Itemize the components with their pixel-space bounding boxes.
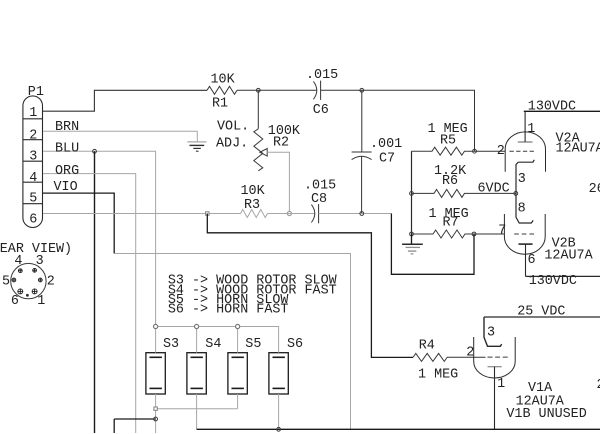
connector P1 outline	[23, 96, 43, 228]
svg-text:V1B UNUSED: V1B UNUSED	[506, 407, 586, 422]
svg-text:C8: C8	[311, 192, 327, 207]
capacitor C8	[311, 205, 314, 223]
svg-text:S5: S5	[245, 337, 261, 352]
svg-text:S3: S3	[163, 337, 179, 352]
wire S3 bottom lead	[155, 394, 157, 433]
wire junction to R2	[257, 90, 259, 129]
node junction R7 left	[410, 232, 414, 236]
svg-text:2: 2	[47, 275, 55, 290]
wire BLU pin3	[43, 151, 156, 326]
wire S6 bottom lead	[278, 394, 280, 429]
svg-text:26: 26	[589, 182, 600, 197]
svg-text:R5: R5	[440, 133, 456, 148]
wire BLU bus down	[94, 151, 96, 433]
node square S3/S5 link	[154, 407, 157, 410]
node S3/VIO spur	[154, 417, 158, 421]
V2A plate	[518, 141, 533, 143]
svg-text:S6: S6	[287, 337, 303, 352]
J pin 6	[18, 289, 23, 294]
svg-text:3: 3	[518, 172, 526, 187]
switch S6	[269, 353, 288, 394]
svg-text:6: 6	[528, 253, 536, 268]
wire S5 bottom link	[156, 394, 238, 409]
svg-text:1 MEG: 1 MEG	[418, 367, 458, 382]
node junction 6VDC	[514, 192, 518, 196]
svg-text:7: 7	[498, 224, 506, 239]
svg-text:BLU: BLU	[55, 142, 79, 157]
svg-text:2: 2	[29, 129, 37, 144]
svg-text:4: 4	[29, 171, 37, 186]
V1A grid dashes	[488, 356, 509, 358]
wire switch top bus	[156, 327, 279, 353]
wire V2A grid	[475, 150, 506, 152]
wire VIO pin5	[43, 193, 114, 253]
wire bottom rail	[197, 428, 600, 430]
svg-text:8: 8	[518, 202, 526, 217]
svg-text:R4: R4	[419, 338, 435, 353]
capacitor C7	[352, 151, 372, 153]
svg-text:130VDC: 130VDC	[529, 274, 577, 289]
resistor R6	[412, 189, 516, 197]
J pin 2	[38, 278, 42, 282]
wire BRN pin2	[43, 131, 197, 142]
V1A cathode and 25VDC wire	[484, 317, 502, 346]
J pin 5	[12, 278, 16, 282]
wire C8 to corner	[319, 213, 392, 215]
svg-text:C7: C7	[379, 152, 395, 167]
J key dot	[26, 294, 29, 297]
wire C6 to grid corner	[321, 90, 475, 151]
svg-text:12AU7A: 12AU7A	[556, 141, 600, 156]
wire R1 to C6	[237, 89, 317, 91]
wire 130VDC V2A	[524, 110, 600, 112]
svg-text:.001: .001	[370, 137, 402, 152]
svg-text:2: 2	[497, 144, 505, 159]
svg-text:12AU7A: 12AU7A	[544, 249, 593, 264]
svg-text:R1: R1	[212, 97, 228, 112]
svg-text:10K: 10K	[211, 73, 236, 88]
node junction R6 left	[410, 192, 414, 196]
svg-text:3: 3	[29, 150, 37, 165]
svg-text:6: 6	[11, 294, 19, 309]
svg-text:1: 1	[29, 106, 37, 121]
svg-text:VOL.: VOL.	[217, 119, 249, 134]
svg-text:5: 5	[29, 192, 37, 207]
wire R7 loop to C7 node	[391, 214, 474, 275]
svg-text:6: 6	[29, 213, 37, 228]
V1A plate	[488, 366, 502, 368]
svg-text:1: 1	[497, 377, 505, 392]
svg-text:C6: C6	[313, 103, 329, 118]
svg-text:2: 2	[597, 378, 600, 393]
wire S4 bottom lead	[196, 394, 198, 429]
node junction R5 right	[473, 149, 477, 153]
wire VIO continuation to bottom rail	[114, 254, 350, 430]
svg-text:R6: R6	[442, 174, 458, 189]
wire pin6 / R3 row	[43, 213, 241, 215]
node S4 top	[195, 324, 199, 328]
node junction C6/C7	[360, 88, 364, 92]
resistor R5	[412, 147, 475, 155]
capacitor C6	[313, 81, 316, 99]
wire C7 down to R3 row	[361, 156, 363, 213]
ground mid	[402, 234, 423, 254]
wire ORG pin4	[43, 174, 136, 433]
wire S3 top lead	[155, 327, 157, 353]
resistor R4	[413, 353, 447, 361]
wire left bus R5-R7	[411, 151, 413, 234]
svg-text:1: 1	[37, 294, 45, 309]
svg-text:3: 3	[487, 325, 495, 340]
svg-text:5: 5	[2, 275, 10, 290]
wire V2B grid	[474, 233, 504, 235]
wire 130VDC V2B	[526, 275, 600, 277]
svg-text:S6 -> HORN FAST: S6 -> HORN FAST	[168, 303, 289, 318]
wire R4 to V1A grid	[447, 356, 486, 358]
tube V2B envelope	[504, 214, 545, 254]
J pin 1	[32, 289, 37, 294]
node BLU junction	[93, 149, 97, 153]
wire S4 top lead	[196, 327, 198, 353]
V2A cathode	[516, 160, 534, 223]
R2 wiper arrow	[260, 149, 267, 157]
tube V1A envelope	[474, 337, 516, 378]
svg-text:1: 1	[527, 122, 535, 137]
svg-text:ADJ.: ADJ.	[216, 137, 248, 152]
switch S3	[146, 353, 165, 394]
connector J rear view circle	[11, 263, 46, 298]
resistor R7	[412, 230, 475, 238]
wire junction down to C7	[361, 90, 363, 152]
svg-text:R2: R2	[273, 136, 289, 151]
wire R3 to C8	[268, 213, 315, 215]
svg-text:4: 4	[14, 254, 22, 269]
svg-text:S4: S4	[205, 337, 221, 352]
potentiometer R2	[254, 129, 263, 171]
node junction C7 on R3 row	[360, 212, 364, 216]
wire pin1 to R1	[43, 90, 207, 111]
V2B plate	[519, 243, 533, 245]
wire link VIO spur	[114, 419, 155, 433]
svg-text:130VDC: 130VDC	[528, 100, 576, 115]
wire junction drop to R4	[207, 214, 413, 358]
svg-text:P1: P1	[28, 85, 44, 100]
wire R2 wiper to R3 row	[267, 152, 289, 213]
svg-text:10K: 10K	[241, 184, 266, 199]
svg-text:.015: .015	[306, 68, 338, 83]
J pin 3	[33, 268, 37, 272]
wire S5 top lead	[237, 327, 239, 353]
svg-text:ORG: ORG	[55, 164, 79, 179]
node square junction R3 row left	[206, 212, 209, 215]
svg-text:R3: R3	[244, 198, 260, 213]
svg-text:R7: R7	[443, 216, 459, 231]
svg-text:25 VDC: 25 VDC	[517, 305, 565, 320]
tube V2A envelope	[505, 132, 545, 172]
node S3 top	[154, 324, 158, 328]
node S5 top	[236, 324, 240, 328]
svg-text:2: 2	[466, 346, 474, 361]
svg-text:BRN: BRN	[55, 120, 79, 135]
node junction R1/R2/C6	[256, 88, 260, 92]
switch S5	[228, 353, 247, 394]
J pin 4	[18, 269, 22, 273]
resistor R3	[241, 210, 268, 218]
node S6 on rail	[277, 427, 281, 431]
resistor R1	[207, 86, 237, 94]
switch S4	[187, 353, 206, 394]
node wiper drop on R3 row	[287, 211, 291, 215]
svg-text:3: 3	[36, 254, 44, 269]
svg-text:6VDC: 6VDC	[478, 182, 510, 197]
ground BRN	[187, 142, 206, 151]
svg-text:VIO: VIO	[54, 180, 78, 195]
node junction R7 right	[472, 232, 476, 236]
